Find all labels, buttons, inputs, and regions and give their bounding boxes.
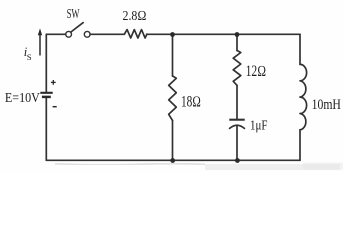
svg-text:18Ω: 18Ω: [181, 94, 201, 111]
battery plus sign: [51, 80, 56, 85]
switch SW left contact circle: [66, 31, 72, 37]
wire 18-ohm branch lower: [172, 121, 174, 161]
junction node top of 12-ohm branch: [235, 32, 240, 37]
junction node bottom of 12-ohm branch: [235, 158, 240, 163]
inductor L1 coil 10mH: [300, 64, 307, 129]
wire top-left corner to switch: [46, 33, 65, 35]
battery E long positive plate: [40, 92, 52, 94]
capacitor C1 curved plate: [230, 125, 245, 128]
wire bottom: [46, 159, 300, 161]
svg-text:E=10V: E=10V: [5, 90, 40, 105]
scan noise patch bottom-right corner: [303, 163, 343, 170]
wire right vertical upper (corner to inductor): [299, 34, 301, 64]
svg-text:S: S: [27, 52, 32, 62]
svg-text:12Ω: 12Ω: [246, 63, 267, 80]
scan noise patch right of bottom wire: [205, 164, 340, 170]
current arrow i_s: [38, 28, 42, 55]
junction node bottom of 18-ohm branch: [170, 158, 175, 163]
wire right vertical lower (inductor to bottom corner): [299, 130, 301, 161]
switch SW right contact circle: [84, 31, 90, 37]
capacitor C1 flat plate: [229, 119, 244, 121]
scan smudge shadow under bottom wire: [55, 164, 205, 165]
battery E short negative plate: [42, 96, 51, 99]
svg-text:2.8Ω: 2.8Ω: [123, 9, 147, 24]
wire left vertical lower (battery to bottom corner): [45, 98, 47, 160]
wire between 12-ohm resistor and capacitor C1: [236, 85, 238, 119]
wire 18-ohm branch upper: [172, 34, 174, 76]
resistor 12-ohm zigzag: [233, 51, 241, 86]
wire resistor R1 to top-right corner: [147, 33, 300, 35]
wire between switch and resistor R1: [90, 33, 124, 35]
resistor 2.8-ohm zigzag: [124, 30, 146, 38]
wire 12-ohm branch upper: [236, 34, 238, 50]
resistor 18-ohm zigzag: [169, 76, 177, 121]
svg-text:10mH: 10mH: [312, 97, 341, 113]
junction node top of 18-ohm branch: [170, 32, 175, 37]
svg-text:SW: SW: [67, 7, 80, 22]
wire capacitor C1 to bottom: [236, 126, 238, 160]
switch SW blade: [71, 23, 83, 32]
svg-text:1μF: 1μF: [250, 119, 268, 134]
battery minus sign: [53, 106, 57, 108]
wire left vertical upper (corner to battery): [45, 34, 47, 91]
